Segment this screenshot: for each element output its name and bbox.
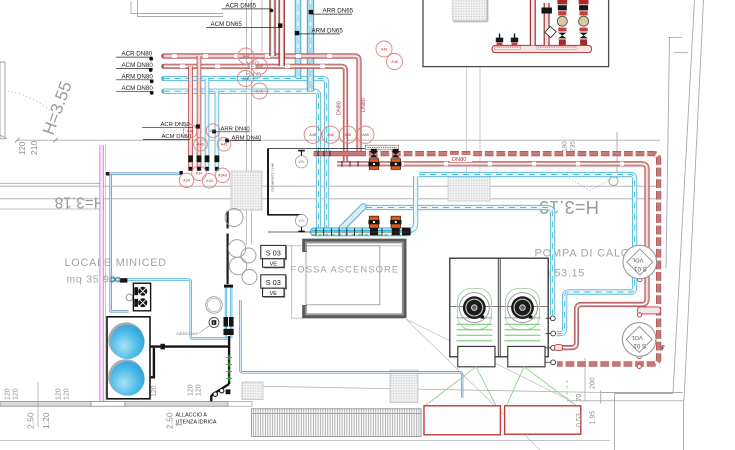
svg-text:A48: A48: [309, 133, 315, 137]
buffer tank 1: [108, 322, 144, 358]
svg-text:V.S.: V.S.: [298, 160, 304, 164]
bottom dim texts 120 pairs: [5, 384, 203, 400]
right building edge slanted walls: [567, 0, 704, 450]
detail box frame: [423, 0, 609, 67]
svg-text:H=3.18: H=3.18: [55, 194, 105, 211]
allaccio label: [176, 413, 217, 426]
black ticks on red collector: [318, 151, 358, 167]
svg-text:A48: A48: [345, 133, 351, 137]
detail valve stack 1: [557, 0, 567, 45]
collector hot manifold valves pump group 1: [368, 149, 379, 170]
svg-text:A46: A46: [327, 133, 333, 137]
riser circles cluster: [225, 209, 257, 285]
svg-text:DN80: DN80: [361, 98, 367, 112]
collector red label box: [366, 145, 399, 150]
svg-text:1.95: 1.95: [590, 411, 597, 425]
svg-text:A34B: A34B: [218, 174, 227, 178]
wall top-left corner: [131, 0, 223, 17]
hatch block small bottom: [242, 382, 263, 400]
svg-text:A46: A46: [256, 65, 262, 69]
wall left column bracket: [0, 62, 7, 139]
pipe red riser ACM DN65: [279, 0, 285, 66]
svg-text:A48: A48: [362, 133, 368, 137]
heat pump feet: [458, 346, 495, 366]
detail manifold bar: [492, 45, 592, 52]
svg-text:ALLACCIO A: ALLACCIO A: [176, 413, 208, 419]
svg-text:ACM DN80: ACM DN80: [122, 62, 154, 69]
bottom dim texts meters: [26, 412, 184, 429]
dim ticks: [15, 138, 58, 143]
valves on cyan risers: [224, 285, 234, 335]
svg-text:ACM DN80: ACM DN80: [122, 85, 154, 92]
leader diagonals from elevator pit corner: [406, 319, 565, 450]
pipe red riser ACR DN65: [269, 0, 275, 56]
hatch block shaft center: [448, 176, 490, 201]
wall verticals top-center: [247, 0, 263, 245]
svg-text:DN80: DN80: [452, 157, 466, 163]
vent box S03 VE upper: [261, 245, 287, 268]
heat pump green coil outlines: [458, 289, 540, 330]
svg-text:120: 120: [151, 385, 158, 397]
svg-text:V.S.: V.S.: [298, 219, 304, 223]
svg-text:A34: A34: [196, 172, 202, 176]
svg-text:VE: VE: [270, 262, 278, 268]
pipe red dashed flow RD: [314, 154, 659, 364]
black utility water line: [145, 336, 229, 401]
pipe cyan main loop CS around pump room: [419, 175, 635, 334]
svg-text:Addolcitore: Addolcitore: [176, 331, 199, 336]
svg-text:235: 235: [570, 141, 577, 152]
svg-text:LOCALE MINICED: LOCALE MINICED: [65, 257, 167, 269]
gray leaders from detail box to shaft hatch: [466, 21, 468, 177]
svg-text:A46: A46: [256, 89, 262, 93]
pipe red drop ACR DN50: [197, 56, 202, 171]
magenta wall lines: [100, 145, 105, 401]
heat pump unit outline: [450, 258, 548, 357]
elevator pit thick U wall: [305, 241, 405, 316]
svg-text:A34: A34: [183, 179, 189, 183]
thin cyan pump loop: [112, 280, 229, 339]
pipe cyan riser ARM DN65: [295, 0, 302, 78]
safety valve VS lower: [295, 215, 307, 232]
red connection dots: [637, 278, 642, 369]
expansion vessel circle: [206, 297, 223, 314]
pump block: [133, 283, 150, 311]
svg-text:1.20: 1.20: [41, 412, 51, 429]
elevator pit thin walls: [292, 246, 405, 318]
svg-text:120: 120: [13, 388, 20, 400]
red capsule fitting right: [638, 307, 661, 314]
svg-text:FOSSA ASCENSORE: FOSSA ASCENSORE: [291, 264, 400, 275]
label DN80 on red pipe: [450, 155, 472, 162]
bottom dim tick line: [37, 382, 39, 427]
top fitting of pump block: [120, 278, 128, 282]
dim texts right bottom over pads: [576, 377, 597, 427]
detail box hatch shaft: [453, 0, 487, 21]
svg-text:mq 35.99: mq 35.99: [67, 275, 117, 286]
concrete pad 2: [505, 406, 581, 434]
dim line right: [616, 132, 618, 178]
svg-text:VE: VE: [270, 291, 278, 297]
volume tank callout S01 lower: [622, 323, 656, 357]
pipe ACR DN80 main R1: [164, 56, 359, 152]
pipe cyan vertical connector to manifold: [404, 176, 416, 231]
svg-text:ACR DN65: ACR DN65: [226, 2, 257, 9]
door swing dotted V: [566, 177, 616, 191]
green valve marks on utility riser: [226, 355, 232, 382]
door symbol circle: [609, 177, 618, 186]
heat pump connection stubs: [546, 316, 556, 365]
utility fittings circles: [220, 389, 224, 393]
fan 1: [459, 293, 489, 323]
pipe ACM DN80 main R2: [164, 66, 346, 162]
svg-text:120: 120: [18, 141, 27, 155]
bottom line: [0, 439, 610, 441]
concrete pad 1: [424, 406, 500, 435]
cyan manifold pump group 1: [368, 216, 379, 235]
svg-text:120: 120: [56, 388, 63, 400]
svg-text:120: 120: [64, 388, 71, 400]
svg-text:S 01: S 01: [633, 342, 646, 349]
pipe ACM DN80 main C2: [164, 91, 319, 231]
svg-text:UTENZA IDRICA: UTENZA IDRICA: [176, 420, 217, 426]
svg-text:180: 180: [562, 141, 569, 152]
svg-text:70: 70: [576, 394, 583, 402]
dim line right bottom: [584, 358, 586, 401]
svg-text:A46: A46: [187, 130, 193, 134]
small circle near pumps: [126, 294, 133, 301]
svg-text:200: 200: [590, 377, 597, 389]
svg-text:A34: A34: [206, 179, 212, 183]
pipe ARM DN80 main C1: [164, 79, 327, 232]
outer slanted wall bottom: [263, 386, 601, 392]
hatch block bottom right of tanks: [390, 370, 418, 403]
svg-text:120: 120: [188, 384, 195, 396]
svg-text:120: 120: [196, 384, 203, 396]
pipe cyan diagonal riser to manifold: [342, 207, 364, 229]
collector hot manifold valves pump group 2: [390, 149, 401, 170]
fan 2: [508, 293, 538, 323]
green leader lines to pads: [426, 367, 577, 406]
svg-text:ARM DN65: ARM DN65: [312, 27, 344, 34]
detail red riser pipes: [533, 0, 547, 45]
black wall segments miniced room: [227, 211, 229, 284]
red capsule fitting near heat pump: [555, 345, 563, 351]
black wall elevator room left: [268, 149, 365, 216]
svg-text:S 01: S 01: [634, 265, 647, 272]
svg-text:0.53: 0.53: [576, 413, 583, 427]
svg-text:A46: A46: [243, 54, 249, 58]
svg-text:S 03: S 03: [266, 248, 281, 257]
pipe red solid flow RS: [337, 164, 647, 348]
svg-text:2.50: 2.50: [26, 412, 36, 429]
detail valve stack 2: [579, 0, 589, 45]
wall double line left: [0, 183, 660, 209]
thin steel pipe B1 to tanks room: [109, 174, 182, 311]
svg-text:A46: A46: [381, 47, 387, 51]
bottom wall band: [0, 402, 252, 407]
svg-text:A46: A46: [197, 143, 203, 147]
detail small valve group 1: [496, 34, 503, 46]
svg-text:210: 210: [29, 141, 39, 155]
wall long horizontal H=3.55 level: [17, 139, 660, 141]
volume tank callout S01 upper: [623, 245, 657, 279]
wall line above manifold: [268, 231, 411, 233]
svg-text:DN80: DN80: [337, 101, 343, 115]
detail small valve group 2: [511, 34, 518, 46]
door swing dotted arc: [4, 91, 52, 112]
svg-text:ARR DN65: ARR DN65: [323, 8, 354, 15]
svg-text:VOL: VOL: [631, 334, 643, 340]
addolcitore symbol: [209, 318, 219, 328]
pipe red drop ACM DN50: [188, 66, 193, 170]
svg-text:VOL: VOL: [631, 256, 643, 262]
valve blocks on DN50 DN40 drops: [188, 155, 219, 170]
svg-text:CDZ AMBIENTE 3.5 kW: CDZ AMBIENTE 3.5 kW: [271, 163, 275, 192]
vent box S03 VE lower: [261, 275, 287, 298]
pipe cyan inner line CI to heat pump: [366, 208, 553, 316]
svg-text:ACM DN65: ACM DN65: [211, 21, 243, 28]
svg-text:ACR DN80: ACR DN80: [122, 51, 153, 58]
label underlines and markers: [116, 9, 352, 141]
cyan manifold pump group 2: [390, 216, 401, 235]
buffer tank 2: [108, 359, 144, 395]
pipe cyan riser ARR DN65: [307, 0, 314, 91]
pipe cyan drop ARR DN40: [215, 91, 220, 171]
black elbow manifold right end: [402, 228, 410, 236]
hatched strip bottom: [252, 409, 421, 437]
thin blue pipe B2 along bottom: [240, 300, 462, 398]
svg-text:120: 120: [5, 388, 12, 400]
svg-text:S 03: S 03: [266, 278, 281, 287]
svg-text:ARM DN80: ARM DN80: [122, 73, 154, 80]
tanks enclosure: [107, 317, 150, 399]
heat pump green coil lines: [457, 318, 541, 341]
hatch block stair riser left: [231, 171, 262, 210]
black mark F: [662, 346, 665, 351]
svg-text:A45: A45: [210, 129, 216, 133]
svg-text:A45: A45: [221, 143, 227, 147]
cyan manifold collector: [311, 228, 412, 236]
thin cyan risers right of pump room: [226, 288, 231, 339]
svg-text:A46: A46: [242, 77, 248, 81]
svg-text:A48: A48: [391, 60, 397, 64]
pipe cyan drop ARM DN40: [205, 79, 210, 171]
safety valve VS upper: [295, 151, 307, 168]
